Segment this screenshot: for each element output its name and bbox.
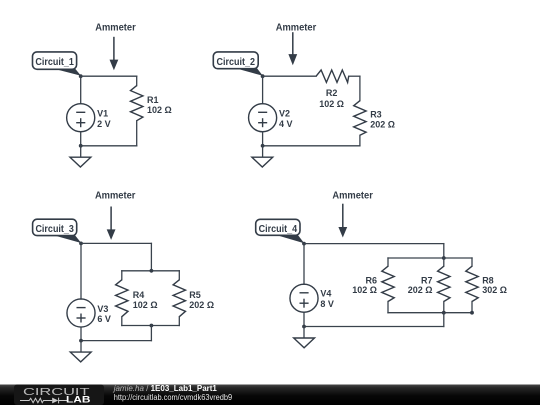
wire ground stub (circuit 3)	[80, 341, 82, 352]
label V2 value 4 V	[279, 109, 293, 129]
svg-text:302 Ω: 302 Ω	[482, 285, 507, 295]
wire R8 top stub	[471, 258, 473, 266]
arrow annotation pointer (circuit 1 ammeter)	[110, 37, 119, 71]
voltage source V4	[290, 284, 318, 312]
ground (circuit 4)	[294, 338, 315, 348]
wire ground stub (circuit 2)	[262, 146, 264, 157]
svg-text:Ammeter: Ammeter	[95, 22, 136, 33]
wire right lower (circuit 2)	[359, 135, 361, 146]
wire source bottom (circuit 1)	[80, 132, 82, 146]
wire top (circuit 3)	[81, 242, 151, 244]
node label Circuit_2	[213, 52, 262, 76]
ground (circuit 2)	[252, 157, 273, 167]
logo resistor-diode glyph	[20, 398, 67, 404]
wire bottom (circuit 3)	[81, 340, 151, 342]
resistor R4	[116, 280, 128, 317]
label R6 value 102 ohm	[352, 275, 377, 295]
arrow annotation pointer (circuit 3 ammeter)	[107, 207, 116, 240]
junction node B (circuit 1 bottom)	[79, 144, 83, 148]
label R1 value 102 ohm	[147, 95, 172, 115]
svg-text:R5: R5	[189, 290, 201, 300]
wire bottom bar (circuit 4)	[388, 312, 472, 314]
voltage source V1	[67, 104, 95, 132]
wire R6 bottom stub	[387, 302, 389, 313]
junction node B (circuit 3 bottom)	[79, 339, 83, 343]
resistor R5	[173, 280, 185, 317]
wire source top (circuit 4)	[303, 244, 305, 285]
resistor R6	[382, 266, 394, 301]
svg-text:Circuit_2: Circuit_2	[217, 57, 256, 68]
wire bottom bar (circuit 3)	[122, 325, 180, 327]
node label Circuit_1	[33, 52, 82, 76]
svg-text:202 Ω: 202 Ω	[408, 285, 433, 295]
svg-text:R7: R7	[421, 275, 433, 285]
wire right lower (circuit 1)	[136, 121, 138, 146]
svg-text:102 Ω: 102 Ω	[319, 99, 344, 109]
junction node A (circuit 3 top)	[79, 242, 83, 246]
label V1 value 2 V	[97, 109, 111, 129]
wire source top (circuit 2)	[262, 76, 264, 103]
junction bottom bar at R8 (circuit 4)	[470, 311, 474, 315]
svg-text:2 V: 2 V	[97, 119, 111, 129]
node label Circuit_3	[33, 219, 82, 243]
wire bottom (circuit 4)	[304, 326, 444, 328]
svg-text:102 Ω: 102 Ω	[133, 300, 158, 310]
svg-text:Ammeter: Ammeter	[332, 190, 373, 201]
wire source top (circuit 1)	[80, 76, 82, 103]
wire top (circuit 1)	[81, 75, 137, 77]
svg-text:Circuit_1: Circuit_1	[35, 57, 74, 68]
svg-text:R3: R3	[370, 109, 382, 119]
junction top bar (circuit 4)	[442, 256, 446, 260]
svg-text:R2: R2	[326, 88, 338, 98]
svg-text:Ammeter: Ammeter	[276, 22, 317, 33]
label R7 value 202 ohm	[408, 275, 433, 295]
arrow annotation pointer (circuit 2 ammeter)	[288, 32, 297, 65]
svg-text:202 Ω: 202 Ω	[370, 120, 395, 130]
svg-text:Circuit_4: Circuit_4	[259, 224, 298, 235]
label V3 value 6 V	[97, 304, 111, 324]
label R2 value 102 ohm	[319, 88, 344, 109]
wire down to parallel pair (circuit 3)	[150, 243, 152, 270]
ground (circuit 3)	[70, 352, 91, 362]
voltage source V2	[249, 104, 277, 132]
svg-text:V3: V3	[97, 304, 108, 314]
wire top left (circuit 2)	[263, 75, 317, 77]
junction node B (circuit 4 bottom)	[302, 325, 306, 329]
svg-text:V4: V4	[320, 289, 331, 299]
wire down to parallel set (circuit 4)	[443, 244, 445, 258]
junction node A (circuit 2 top)	[261, 74, 265, 78]
logo tile	[14, 385, 104, 405]
wire R7 bottom stub	[443, 302, 445, 313]
junction node A (circuit 4 top)	[302, 242, 306, 246]
svg-text:V2: V2	[279, 109, 290, 119]
wire right upper (circuit 1)	[136, 76, 138, 85]
wire bottom (circuit 1)	[81, 145, 137, 147]
junction node A (circuit 1 top)	[79, 74, 83, 78]
junction node B (circuit 2 bottom)	[261, 144, 265, 148]
wire R4 bottom stub	[121, 317, 123, 326]
junction top bar (circuit 3)	[150, 269, 154, 273]
arrow annotation pointer (circuit 4 ammeter)	[338, 204, 347, 238]
wire top bar (circuit 3)	[122, 270, 180, 272]
wire source bottom (circuit 4)	[303, 312, 305, 326]
svg-text:R4: R4	[133, 290, 145, 300]
wire down from bottom bar (circuit 3)	[150, 326, 152, 341]
wire R6 top stub	[387, 258, 389, 266]
wire bottom (circuit 2)	[263, 145, 360, 147]
wire R5 bottom stub	[178, 317, 180, 326]
wire R5 top stub	[178, 271, 180, 280]
resistor R2	[316, 70, 349, 82]
resistor R1	[131, 86, 143, 121]
svg-text:V1: V1	[97, 109, 108, 119]
wire R7 top stub	[443, 258, 445, 266]
label R4 value 102 ohm	[133, 290, 158, 310]
ground (circuit 1)	[70, 157, 91, 167]
svg-text:102 Ω: 102 Ω	[147, 105, 172, 115]
node label Circuit_4	[256, 219, 305, 243]
wire R8 bottom stub	[471, 302, 473, 313]
resistor R8	[466, 266, 478, 301]
svg-text:R8: R8	[482, 275, 494, 285]
junction bottom bar (circuit 3)	[150, 324, 154, 328]
wire source top (circuit 3)	[80, 243, 82, 299]
voltage source V3	[67, 299, 95, 327]
label R8 value 302 ohm	[482, 275, 507, 295]
wire down from bottom bar (circuit 4)	[443, 313, 445, 327]
svg-text:102 Ω: 102 Ω	[352, 285, 377, 295]
svg-text:202 Ω: 202 Ω	[189, 300, 214, 310]
label R3 value 202 ohm	[370, 109, 395, 129]
svg-text:R6: R6	[365, 275, 377, 285]
wire top bar (circuit 4)	[388, 257, 472, 259]
junction bottom bar at R7 (circuit 4)	[442, 311, 446, 315]
svg-text:http://circuitlab.com/cvmdk63v: http://circuitlab.com/cvmdk63vredb9	[114, 393, 233, 402]
svg-text:jamie.ha / 1E03_Lab1_Part1: jamie.ha / 1E03_Lab1_Part1	[113, 384, 218, 393]
svg-text:Ammeter: Ammeter	[95, 190, 136, 201]
wire ground stub (circuit 1)	[80, 146, 82, 157]
wire right upper (circuit 2)	[359, 76, 361, 101]
resistor R7	[438, 266, 450, 301]
wire R4 top stub	[121, 271, 123, 280]
resistor R3	[354, 101, 366, 136]
svg-text:R1: R1	[147, 95, 159, 105]
svg-text:LAB: LAB	[66, 395, 91, 405]
label R5 value 202 ohm	[189, 290, 214, 310]
wire ground stub (circuit 4)	[303, 327, 305, 338]
wire top (circuit 4)	[304, 243, 444, 245]
svg-text:8 V: 8 V	[320, 299, 334, 309]
wire source bottom (circuit 3)	[80, 327, 82, 341]
svg-text:6 V: 6 V	[97, 314, 111, 324]
wire top right (circuit 2)	[349, 75, 360, 77]
label V4 value 8 V	[320, 289, 334, 309]
wire source bottom (circuit 2)	[262, 132, 264, 146]
svg-text:4 V: 4 V	[279, 119, 293, 129]
svg-text:Circuit_3: Circuit_3	[35, 224, 74, 235]
